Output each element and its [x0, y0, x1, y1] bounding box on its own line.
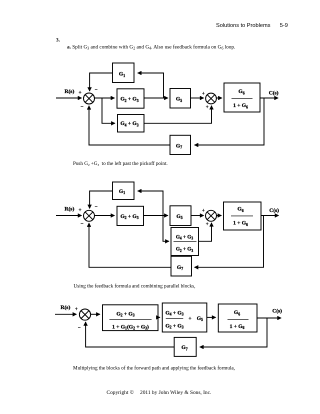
svg-text:+: +: [75, 307, 78, 312]
svg-text:Using the feedback formula and: Using the feedback formula and combining…: [74, 282, 196, 289]
svg-text:1 + G6: 1 + G6: [233, 103, 248, 109]
svg-text:1 + G6: 1 + G6: [233, 221, 248, 227]
svg-text:+: +: [206, 223, 209, 228]
svg-text:+: +: [79, 209, 82, 214]
svg-text:G2 + G3: G2 + G3: [120, 97, 138, 103]
svg-text:G4 + G3: G4 + G3: [176, 234, 193, 240]
svg-text:Solutions to Problems: Solutions to Problems: [216, 23, 271, 29]
svg-text:R(s): R(s): [61, 304, 71, 311]
svg-text:G4 + G3: G4 + G3: [165, 310, 183, 316]
svg-text:−: −: [95, 88, 98, 93]
svg-text:G4 + G3: G4 + G3: [120, 121, 138, 127]
svg-text:5-9: 5-9: [280, 23, 288, 29]
svg-text:G2 + G3: G2 + G3: [165, 323, 183, 329]
svg-text:Push G2 +G3 to the left past: Push G2 +G3 to the left past the pickoff…: [73, 160, 168, 167]
svg-text:C(s): C(s): [269, 90, 279, 97]
svg-text:C(s): C(s): [269, 207, 279, 214]
svg-text:Multiplying the blocks of the: Multiplying the blocks of the forward pa…: [73, 365, 235, 372]
svg-text:−: −: [81, 222, 84, 227]
svg-text:+: +: [202, 209, 205, 214]
svg-text:G2 + G3: G2 + G3: [120, 214, 138, 220]
svg-text:a. Split G3 and combine with G: a. Split G3 and combine with G2 and G4. …: [67, 43, 235, 50]
svg-text:1 + G1(G2 + G3): 1 + G1(G2 + G3): [112, 323, 149, 330]
svg-text:+: +: [79, 91, 82, 96]
svg-text:G2 + G3: G2 + G3: [176, 247, 193, 253]
svg-text:−: −: [95, 205, 98, 210]
svg-text:−: −: [81, 105, 84, 110]
svg-text:Copyright ©: Copyright ©: [107, 389, 134, 396]
svg-text:+: +: [206, 105, 209, 110]
svg-text:R(s): R(s): [65, 205, 75, 212]
svg-text:G2 + G3: G2 + G3: [116, 311, 134, 317]
svg-text:3.: 3.: [56, 37, 61, 43]
svg-text:+: +: [189, 316, 192, 322]
svg-text:R(s): R(s): [65, 88, 75, 95]
svg-text:1 + G6: 1 + G6: [230, 324, 245, 330]
svg-text:+: +: [202, 92, 205, 97]
svg-text:2011 by John Wiley & Sons, Inc: 2011 by John Wiley & Sons, Inc.: [140, 390, 211, 396]
svg-text:−: −: [78, 326, 81, 331]
svg-text:C(s): C(s): [272, 308, 282, 315]
